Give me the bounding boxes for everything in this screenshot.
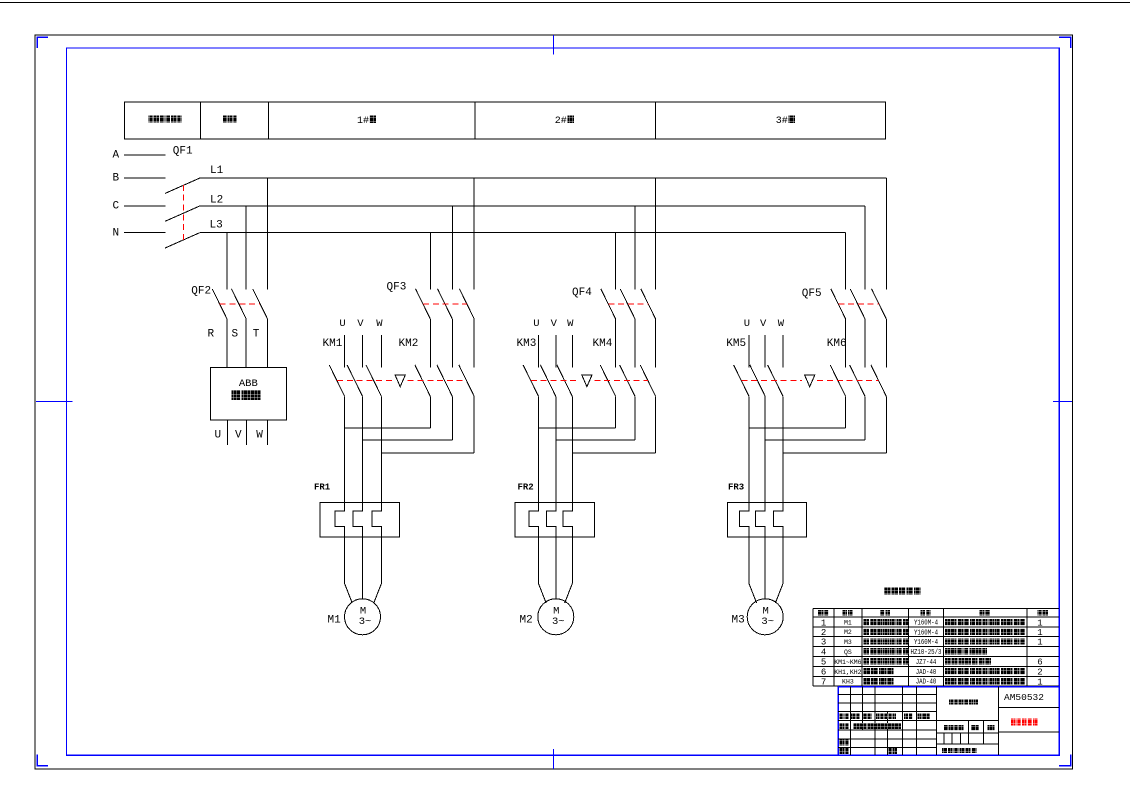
component row 4 spec text: [945, 648, 950, 654]
KM6 pole 3 blade: [871, 365, 886, 396]
title block line: [983, 721, 985, 733]
component row 7 spec text: [945, 678, 950, 684]
component row 5 name text: [864, 658, 870, 664]
FR1 heater element pole 1: [335, 502, 345, 537]
component row 3 name text: [864, 638, 870, 644]
wire tap to QF2: [226, 233, 228, 290]
svg-text:3#: 3#: [776, 116, 788, 127]
top centering mark: [552, 35, 554, 55]
title block horizontal line: [838, 747, 936, 749]
svg-text:W: W: [778, 318, 785, 330]
component row 2 name text: [864, 629, 870, 635]
svg-text:6: 6: [1037, 658, 1042, 668]
merge wire KM2 pole 1 to KM1: [345, 427, 431, 429]
svg-text:3~: 3~: [552, 616, 565, 628]
KM4 pole 1 top wire: [615, 319, 617, 368]
merge wire KM6 pole 2 to KM5: [765, 439, 865, 441]
wire FR1 to motor M1 right: [374, 537, 382, 603]
KM1 pole 1 top wire: [344, 335, 346, 367]
QF5 linkage red dashed: [838, 303, 879, 305]
svg-text:QF4: QF4: [572, 287, 592, 299]
title block vertical line: [916, 687, 918, 756]
KM3 pole 1 top wire: [538, 335, 540, 367]
phase A input wire: [124, 154, 166, 156]
interlock triangle between KM3 and KM4: [582, 375, 592, 387]
bottom centering mark: [552, 749, 554, 769]
wire tap to QF5: [885, 178, 887, 290]
component table row line: [813, 655, 1059, 657]
inverter output wire 1: [227, 420, 229, 445]
svg-text:ABB: ABB: [239, 378, 258, 390]
svg-text:R: R: [208, 329, 215, 341]
svg-text:1#: 1#: [357, 116, 369, 127]
title text 设计: [840, 723, 844, 729]
component table header text: [880, 610, 885, 616]
svg-text:M1: M1: [328, 614, 342, 626]
wire QF2 pole 2 to inverter: [245, 319, 247, 367]
svg-text:1: 1: [1037, 677, 1042, 687]
title text 更改文件号: [876, 714, 880, 720]
KM1 pole 2 blade: [347, 365, 362, 396]
merge wire KM4 pole 3 to KM3: [572, 452, 655, 454]
component table column line: [833, 608, 835, 686]
phase B input wire: [124, 177, 166, 179]
wire FR2 to motor M2 right: [565, 537, 573, 603]
svg-text:M3: M3: [732, 614, 745, 626]
component row 5 spec text: [945, 658, 951, 664]
header table divider: [474, 102, 476, 139]
title text design unit name: [949, 700, 953, 705]
section header table: [124, 102, 885, 139]
QF5 pole 3 blade: [872, 289, 887, 319]
title block top blue line: [838, 686, 1059, 688]
blue corner mark bottom-left: [37, 755, 48, 766]
svg-text:Y160M-4: Y160M-4: [914, 629, 938, 637]
svg-text:QS: QS: [844, 649, 852, 656]
KM6 pole 2 bottom wire: [864, 396, 866, 440]
FR1 heater element pole 3: [372, 502, 382, 537]
header cell text 变频器: [223, 116, 227, 123]
motor M1 (3-phase): [345, 599, 381, 635]
FR3 heater element pole 2: [756, 502, 766, 537]
KM6 pole 2 blade: [850, 365, 865, 396]
wire tap to QF4: [615, 233, 617, 290]
svg-text:KM1~KM6: KM1~KM6: [834, 659, 861, 666]
component table column line: [908, 608, 910, 686]
svg-text:M2: M2: [520, 614, 533, 626]
svg-text:U: U: [744, 318, 750, 330]
wire FR1 to motor M1 middle: [362, 537, 364, 599]
svg-text:M3: M3: [844, 639, 852, 646]
component row 1 spec text: [945, 619, 950, 625]
component table header text: [921, 610, 926, 616]
svg-text:2: 2: [1037, 668, 1042, 678]
title block left blue line: [837, 687, 839, 756]
svg-text:QF5: QF5: [802, 288, 822, 300]
title text 处数: [851, 714, 855, 720]
KM3 pole 2 top wire: [555, 335, 557, 367]
svg-text:KM3: KM3: [517, 338, 537, 350]
svg-text:JZ7-44: JZ7-44: [916, 659, 937, 667]
QF4 linkage red dashed: [608, 303, 648, 305]
wire QF2 pole 1 to inverter: [226, 319, 228, 367]
svg-text:W: W: [567, 318, 574, 330]
wire tap to QF3: [451, 206, 453, 290]
KM2 pole 1 bottom wire: [429, 396, 431, 428]
component row 1 name text: [864, 619, 870, 625]
QF5 pole 1 blade: [831, 289, 846, 319]
QF2 pole 2 blade: [231, 289, 246, 319]
title block horizontal line: [838, 702, 936, 704]
KM3 pole 3 top wire: [571, 335, 573, 367]
left centering mark: [36, 400, 73, 402]
component table header text: [843, 610, 848, 616]
KM2 pole 3 blade: [459, 365, 474, 396]
KM4 pole 3 top wire: [655, 319, 657, 368]
svg-text:7: 7: [821, 677, 826, 687]
inverter output wire 2: [246, 420, 248, 445]
KM6 pole 2 top wire: [864, 319, 866, 368]
component table header text: [1038, 610, 1043, 616]
svg-text:KH1,KH2: KH1,KH2: [834, 669, 861, 676]
wire FR3 to motor M3 left: [749, 537, 757, 603]
component table column line: [942, 608, 944, 686]
KM1/KM2 interlock dashed left: [337, 379, 393, 381]
KM5 pole 3 bottom wire: [782, 396, 784, 502]
wire FR2 to motor M2 middle: [555, 537, 557, 599]
svg-text:3~: 3~: [359, 616, 372, 628]
svg-text:KM4: KM4: [593, 338, 613, 350]
svg-text:3~: 3~: [761, 616, 774, 628]
KM2 pole 2 top wire: [451, 319, 453, 368]
KM6 pole 3 bottom wire: [885, 396, 887, 453]
svg-text:B: B: [113, 173, 120, 185]
svg-text:FR3: FR3: [728, 483, 744, 493]
svg-text:4: 4: [821, 648, 826, 658]
merge wire KM2 pole 2 to KM1: [363, 439, 453, 441]
wire tap to QF4: [655, 178, 657, 290]
QF4 pole 3 blade: [641, 289, 656, 319]
KM5 pole 2 blade: [750, 365, 765, 396]
KM2 pole 3 top wire: [473, 319, 475, 368]
KM6 pole 1 bottom wire: [845, 396, 847, 428]
page top edge line: [0, 2, 1130, 4]
interlock triangle between KM5 and KM6: [805, 375, 815, 387]
svg-text:1: 1: [1037, 618, 1042, 628]
QF3 linkage red dashed: [423, 303, 467, 305]
phase N input wire: [124, 232, 166, 234]
red drawing title 系统主电路: [1011, 719, 1016, 726]
svg-text:U: U: [339, 318, 345, 330]
motor M2 (3-phase): [538, 599, 574, 635]
wire FR1 to motor M1 left: [345, 537, 353, 603]
title block horizontal line: [937, 732, 999, 734]
svg-text:S: S: [232, 329, 239, 341]
QF2 pole 1 blade: [212, 289, 227, 319]
wire FR2 to motor M2 left: [539, 537, 547, 603]
KM1 pole 3 blade: [366, 365, 381, 396]
KM5/KM6 interlock dashed left: [741, 379, 802, 381]
svg-text:3: 3: [821, 638, 826, 648]
svg-text:1: 1: [1037, 628, 1042, 638]
QF1 blade phase N: [165, 233, 200, 248]
component row 6 spec text: [945, 668, 950, 674]
svg-text:Y160M-4: Y160M-4: [914, 639, 938, 647]
svg-text:QF1: QF1: [173, 146, 193, 158]
bus wire L1: [200, 177, 886, 179]
svg-text:QF2: QF2: [191, 285, 211, 297]
KM5 pole 2 top wire: [764, 335, 766, 367]
KM5 pole 2 bottom wire: [764, 396, 766, 502]
component row 4 name text: [864, 648, 870, 654]
title text 年月日: [918, 714, 922, 720]
component table row line: [813, 675, 1059, 677]
svg-text:N: N: [113, 227, 120, 239]
KM5/KM6 interlock dashed right: [817, 379, 879, 381]
KM4 pole 3 blade: [640, 365, 655, 396]
title block stage cell line: [951, 733, 953, 744]
KM5 pole 3 blade: [768, 365, 783, 396]
QF2 pole 3 blade: [253, 289, 268, 319]
wire tap to QF2: [267, 178, 269, 290]
wire tap to QF3: [429, 233, 431, 290]
title block horizontal line: [838, 711, 936, 713]
KM4 pole 2 top wire: [634, 319, 636, 368]
KM6 pole 1 blade: [830, 365, 845, 396]
KM5 pole 1 top wire: [748, 335, 750, 367]
title block vertical line: [874, 687, 876, 756]
svg-text:JAD-40: JAD-40: [916, 678, 937, 686]
FR1 heater element pole 2: [353, 502, 363, 537]
svg-text:V: V: [235, 430, 242, 442]
wire tap to QF5: [864, 206, 866, 290]
KM5 pole 1 bottom wire: [748, 396, 750, 502]
KM5 pole 3 top wire: [782, 335, 784, 367]
KM2 pole 2 blade: [437, 365, 452, 396]
title block vertical line: [902, 687, 904, 756]
FR3 heater element pole 1: [740, 502, 750, 537]
KM5 pole 1 blade: [734, 365, 749, 396]
KM2 pole 3 bottom wire: [473, 396, 475, 453]
svg-text:V: V: [551, 318, 558, 330]
title block stage cell line: [983, 733, 985, 744]
svg-text:1: 1: [1037, 638, 1042, 648]
QF5 pole 2 blade: [850, 289, 865, 319]
title text 签名: [904, 714, 908, 720]
svg-text:C: C: [113, 201, 120, 213]
wire tap to QF4: [634, 206, 636, 290]
QF4 pole 1 blade: [601, 289, 616, 319]
svg-text:JAD-40: JAD-40: [916, 669, 937, 677]
wire tap to QF3: [473, 178, 475, 290]
title block horizontal line: [998, 731, 1059, 733]
component row 2 spec text: [945, 629, 950, 635]
component table row line: [813, 645, 1059, 647]
motor M3 (3-phase): [747, 599, 783, 635]
KM4 pole 1 blade: [600, 365, 615, 396]
title block stage cell line: [959, 733, 961, 744]
QF3 pole 1 blade: [416, 289, 431, 319]
svg-text:A: A: [113, 150, 120, 162]
KM3 pole 2 bottom wire: [555, 396, 557, 502]
QF1 blade phase B: [165, 178, 200, 193]
KM1 pole 3 bottom wire: [380, 396, 382, 502]
KM3 pole 2 blade: [540, 365, 555, 396]
svg-text:KM2: KM2: [399, 338, 419, 350]
KM1/KM2 interlock dashed right: [408, 379, 467, 381]
title block vertical line: [849, 687, 851, 756]
title text 审核: [840, 740, 844, 746]
title block horizontal line: [838, 738, 936, 740]
title text 标记: [840, 714, 844, 720]
title text 分区: [863, 714, 867, 720]
QF3 pole 2 blade: [438, 289, 453, 319]
component table row line: [813, 626, 1059, 628]
KM1 pole 1 blade: [329, 365, 344, 396]
FR3 heater element pole 3: [774, 502, 784, 537]
svg-text:6: 6: [821, 668, 826, 678]
inverter output wire 3: [266, 420, 268, 445]
svg-text:1: 1: [821, 618, 826, 628]
svg-text:V: V: [357, 318, 364, 330]
title block line: [968, 721, 970, 733]
KM3 pole 1 blade: [523, 365, 538, 396]
blue corner mark top-right: [1059, 37, 1071, 48]
wire FR3 to motor M3 right: [775, 537, 783, 603]
KM3/KM4 interlock dashed right: [594, 379, 648, 381]
inverter text 变频器: [232, 390, 241, 400]
bus wire L3: [200, 232, 846, 234]
merge wire KM4 pole 1 to KM3: [539, 427, 616, 429]
KM2 pole 1 blade: [415, 365, 430, 396]
QF4 pole 2 blade: [620, 289, 635, 319]
bus wire L2: [200, 205, 865, 207]
wire FR3 to motor M3 middle: [764, 537, 766, 599]
title block horizontal line: [838, 720, 998, 722]
component row 7 name text: [864, 678, 871, 684]
svg-text:V: V: [760, 318, 767, 330]
svg-text:L3: L3: [210, 220, 223, 232]
phase C input wire: [124, 205, 166, 207]
header cell text 总开关及保护: [149, 116, 154, 123]
wire tap to QF5: [845, 233, 847, 290]
title text 比例: [988, 725, 991, 730]
title block horizontal line: [937, 743, 999, 745]
KM3 pole 3 blade: [557, 365, 572, 396]
svg-text:2: 2: [821, 628, 826, 638]
component table row line: [813, 665, 1059, 667]
svg-text:L2: L2: [210, 195, 223, 207]
title text 工艺: [840, 748, 844, 754]
svg-text:FR2: FR2: [518, 483, 534, 493]
title block vertical line: [861, 687, 863, 730]
title text 阶段标记: [944, 725, 949, 730]
thermal relay FR1 box: [320, 502, 399, 537]
title block vertical line: [887, 712, 889, 756]
KM4 pole 3 bottom wire: [655, 396, 657, 453]
inverter U1 box (ABB): [210, 367, 286, 420]
title text date 02/04/10: [868, 723, 902, 729]
KM6 pole 1 top wire: [845, 319, 847, 368]
svg-text:U: U: [533, 318, 539, 330]
KM3 pole 1 bottom wire: [538, 396, 540, 502]
FR2 heater element pole 3: [563, 502, 573, 537]
component table row line: [813, 636, 1059, 638]
header table divider: [267, 102, 269, 139]
svg-text:FR1: FR1: [314, 483, 331, 493]
KM1 pole 3 top wire: [380, 335, 382, 367]
component row 6 name text: [864, 668, 871, 674]
blue corner mark top-left: [37, 37, 48, 48]
title text signature: [853, 723, 866, 729]
QF3 pole 3 blade: [459, 289, 474, 319]
title block horizontal line: [838, 694, 936, 696]
wire QF2 pole 3 to inverter: [267, 319, 269, 367]
QF2 linkage red dashed: [220, 303, 261, 305]
svg-text:M1: M1: [844, 620, 852, 627]
svg-text:5: 5: [821, 658, 826, 668]
svg-text:W: W: [256, 430, 263, 442]
component table title 元件目录表: [884, 587, 891, 594]
KM2 pole 2 bottom wire: [451, 396, 453, 440]
merge wire KM6 pole 3 to KM5: [783, 452, 886, 454]
KM6 pole 3 top wire: [885, 319, 887, 368]
component table column line: [1026, 608, 1028, 686]
thermal relay FR2 box: [515, 502, 594, 537]
svg-text:HZ10-25/3: HZ10-25/3: [911, 648, 942, 656]
header table divider: [200, 102, 202, 139]
QF1 linkage red dashed: [182, 185, 184, 241]
component table header text: [980, 610, 985, 616]
svg-text:QF3: QF3: [387, 282, 407, 294]
svg-text:L1: L1: [210, 165, 224, 177]
title text 共4张 第2张: [942, 748, 947, 753]
svg-text:2#: 2#: [555, 116, 567, 127]
interlock triangle between KM1 and KM2: [395, 375, 405, 387]
svg-text:W: W: [376, 318, 383, 330]
KM4 pole 2 bottom wire: [634, 396, 636, 440]
component table row line: [813, 616, 1059, 618]
wire tap to QF2: [245, 206, 247, 290]
merge wire KM4 pole 2 to KM3: [556, 439, 635, 441]
KM1 pole 2 top wire: [362, 335, 364, 367]
KM4 pole 1 bottom wire: [615, 396, 617, 428]
component table header text: [818, 610, 823, 616]
svg-text:T: T: [253, 329, 260, 341]
svg-text:Y160M-4: Y160M-4: [914, 619, 938, 627]
svg-text:M2: M2: [844, 629, 852, 636]
QF1 blade phase C: [165, 206, 200, 221]
svg-text:KM5: KM5: [726, 338, 746, 350]
merge wire KM6 pole 1 to KM5: [749, 427, 846, 429]
thermal relay FR3 box: [727, 502, 806, 537]
KM4 pole 2 blade: [620, 365, 635, 396]
merge wire KM2 pole 3 to KM1: [381, 452, 474, 454]
title text 重量: [971, 725, 975, 730]
title block vertical line: [936, 687, 938, 756]
title text 描图: [889, 748, 893, 754]
KM3 pole 3 bottom wire: [571, 396, 573, 502]
KM3/KM4 interlock dashed left: [531, 379, 580, 381]
title block stage cell line: [943, 733, 945, 744]
header table divider: [654, 102, 656, 139]
title block vertical line: [997, 687, 999, 756]
KM1 pole 2 bottom wire: [362, 396, 364, 502]
right centering mark: [1053, 400, 1072, 402]
svg-text:AM50532: AM50532: [1004, 692, 1044, 703]
component table column line: [861, 608, 863, 686]
title block horizontal line: [998, 707, 1059, 709]
